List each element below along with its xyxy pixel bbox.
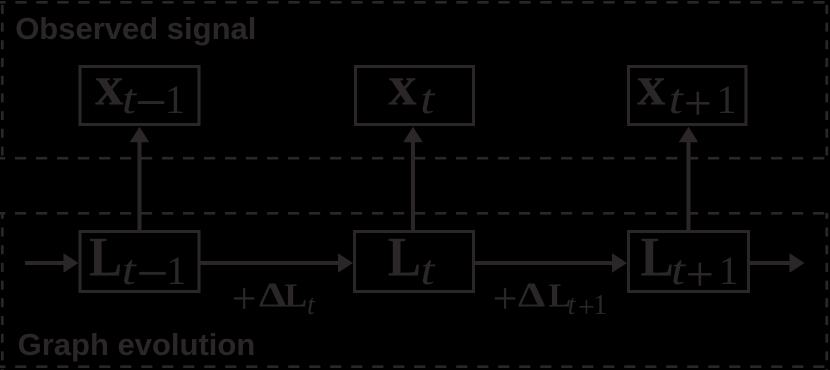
svg-text:t: t bbox=[671, 248, 686, 294]
svg-text:t: t bbox=[122, 77, 137, 123]
box X_t bbox=[356, 67, 474, 125]
svg-text:+: + bbox=[232, 274, 257, 323]
svg-text:Graph evolution: Graph evolution bbox=[18, 327, 256, 362]
svg-text:+: + bbox=[686, 246, 714, 302]
box L_t+1 bbox=[629, 232, 749, 292]
box L_t bbox=[355, 232, 474, 292]
box X_t+1 bbox=[629, 67, 747, 125]
box X_t-1 bbox=[80, 67, 199, 125]
formula X_t+1 bbox=[637, 55, 737, 132]
svg-text:x: x bbox=[637, 55, 666, 118]
observed signal region (dashed box) bbox=[0, 0, 830, 158]
svg-text:x: x bbox=[95, 55, 124, 118]
svg-text:t: t bbox=[421, 248, 436, 294]
svg-text:1: 1 bbox=[717, 77, 737, 122]
svg-text:L: L bbox=[285, 278, 308, 315]
svg-text:1: 1 bbox=[165, 77, 185, 122]
svg-text:1: 1 bbox=[593, 290, 607, 321]
arrow into L_t-1 bbox=[25, 261, 64, 265]
svg-text:L: L bbox=[388, 227, 421, 288]
arrow L_t-1 to L_t bbox=[199, 261, 339, 265]
svg-text:t: t bbox=[420, 77, 435, 123]
svg-text:x: x bbox=[388, 55, 417, 118]
svg-text:Δ: Δ bbox=[259, 276, 287, 315]
svg-text:Observed signal: Observed signal bbox=[15, 11, 256, 46]
arrow L_t to X_t bbox=[411, 140, 415, 230]
formula X_t-1 bbox=[95, 55, 185, 123]
arrow out of L_t+1 bbox=[749, 261, 790, 265]
svg-text:t: t bbox=[669, 77, 684, 123]
svg-text:L: L bbox=[641, 227, 674, 288]
box L_t-1 bbox=[80, 232, 199, 292]
formula L_t bbox=[388, 227, 436, 294]
svg-text:t: t bbox=[568, 290, 577, 321]
label +ΔL_t bbox=[232, 274, 316, 323]
svg-text:+: + bbox=[684, 75, 712, 131]
arrow L_t+1 to X_t+1 bbox=[687, 140, 691, 230]
svg-text:+: + bbox=[493, 274, 518, 323]
svg-text:t: t bbox=[122, 248, 137, 294]
svg-text:1: 1 bbox=[166, 248, 186, 293]
arrow L_t-1 to X_t-1 bbox=[138, 140, 142, 230]
svg-text:t: t bbox=[307, 290, 316, 321]
formula L_t+1 bbox=[641, 227, 739, 302]
formula X_t bbox=[388, 55, 435, 123]
arrow L_t to L_t+1 bbox=[474, 261, 613, 265]
label +ΔL_t+1 bbox=[493, 274, 607, 324]
svg-text:Δ: Δ bbox=[518, 276, 546, 315]
formula L_t-1 bbox=[89, 227, 186, 294]
svg-text:1: 1 bbox=[719, 248, 739, 293]
graph evolution region (dashed box) bbox=[0, 213, 830, 370]
svg-text:L: L bbox=[89, 227, 122, 288]
